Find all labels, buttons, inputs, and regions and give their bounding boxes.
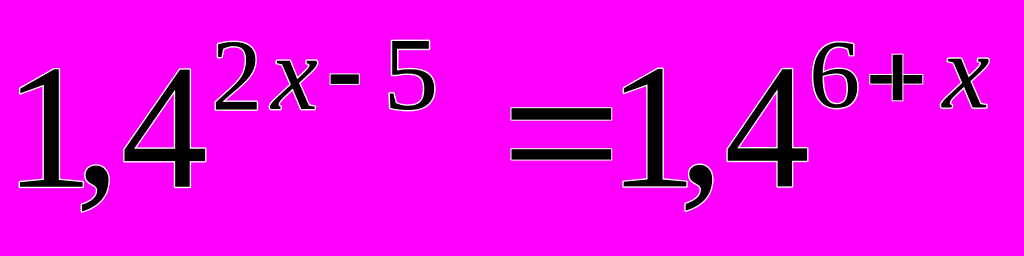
equals sign top bar xyxy=(511,108,612,121)
svg-text:4: 4 xyxy=(724,28,809,225)
left exponent minus sign xyxy=(330,74,359,85)
right exponent plus sign vertical bar xyxy=(892,54,903,101)
svg-text:x: x xyxy=(269,15,318,132)
svg-text:,: , xyxy=(75,25,120,223)
svg-text:,: , xyxy=(679,24,724,222)
svg-text:6: 6 xyxy=(809,19,860,128)
equals sign bottom bar xyxy=(511,149,612,160)
svg-text:2: 2 xyxy=(211,19,262,132)
svg-text:5: 5 xyxy=(383,18,438,133)
svg-text:x: x xyxy=(940,14,989,131)
svg-text:4: 4 xyxy=(121,29,208,226)
right exponent plus sign horizontal bar xyxy=(870,75,923,85)
